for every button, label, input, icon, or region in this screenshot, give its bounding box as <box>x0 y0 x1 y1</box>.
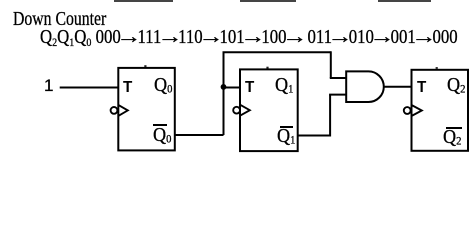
wire: Q0bar output to riser <box>175 134 224 136</box>
wire: top rail over FF1 <box>223 51 331 53</box>
clock edge wedge U1 <box>240 105 250 116</box>
pin label T of U2 <box>417 80 426 96</box>
input constant 1 <box>44 77 53 94</box>
pin label T of U1 <box>245 80 254 96</box>
clock edge wedge U2 <box>412 105 422 116</box>
cropped box remnant C (top) <box>378 0 431 2</box>
clock edge wedge U0 <box>118 105 128 116</box>
cropped box remnant B (top) <box>240 0 296 2</box>
clock bubble U2 <box>404 107 411 114</box>
pin label Q2bar of U2 <box>443 127 461 148</box>
clock bubble U0 <box>111 107 118 114</box>
pin label Q1bar of U1 <box>277 126 295 147</box>
tick artifact on U1 top edge <box>266 67 268 69</box>
cropped box remnant A (top) <box>114 0 173 2</box>
overline of Q0bar <box>153 124 168 126</box>
wire: AND gate top input stub <box>330 77 346 79</box>
title "Down Counter" <box>13 9 106 29</box>
pin label Q0 of U0 <box>154 75 172 96</box>
wire: riser from Q0bar up to top rail <box>223 52 225 135</box>
tick artifact on U0 top edge <box>144 65 146 67</box>
wire: AND gate output to FF2 T <box>384 86 412 88</box>
state sequence label Q2Q1Q0 000->111->...->000 <box>40 27 458 48</box>
T flip-flop U0 body <box>118 68 175 150</box>
wire: junction to FF1 T input <box>224 87 241 89</box>
T flip-flop U1 body <box>240 69 298 151</box>
node: junction of Q0bar net and FF1 T input <box>221 84 227 90</box>
pin label T of U0 <box>123 80 132 96</box>
wire: Q1bar output to AND riser <box>298 135 330 137</box>
clock bubble U1 <box>233 107 240 114</box>
wire: descent from top rail to AND gate top input <box>330 51 332 78</box>
AND gate G1 body <box>346 71 384 102</box>
pin label Q0bar of U0 <box>153 125 171 146</box>
pin label Q1 of U1 <box>275 75 293 96</box>
wire: AND bottom riser <box>329 95 331 137</box>
wire: input 1 to FF0 T <box>60 87 119 89</box>
overline of Q1bar <box>280 126 294 128</box>
overline of Q2bar <box>446 127 463 129</box>
T flip-flop U2 body <box>412 70 469 151</box>
wire: AND gate bottom input stub <box>329 94 346 96</box>
pin label Q2 of U2 <box>447 75 465 96</box>
tick artifact on U2 top edge <box>436 67 438 69</box>
